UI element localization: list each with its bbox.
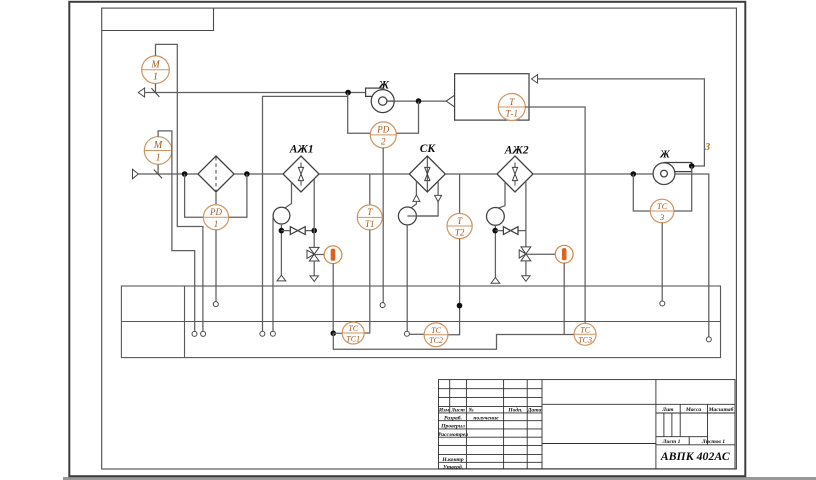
wire AZh2 left drop to pump bbox=[498, 182, 505, 208]
instrument M1 (upper) bbox=[142, 56, 170, 84]
instrument T/T2 bbox=[447, 174, 472, 239]
top-left stamp box bbox=[102, 8, 214, 30]
page shadow strip bbox=[63, 477, 816, 480]
wire AZh2 drain bbox=[494, 225, 496, 277]
svg-text:PD: PD bbox=[209, 207, 222, 217]
svg-text:ТС3: ТС3 bbox=[578, 336, 592, 345]
outlet arrow (return) bbox=[138, 88, 144, 97]
svg-text:М: М bbox=[150, 59, 160, 70]
terminal TC/3 bbox=[660, 301, 665, 306]
three-way valve AZh1 bbox=[307, 247, 319, 261]
node filter left tap bbox=[182, 171, 188, 177]
terminal PD2 bbox=[380, 303, 385, 308]
label AZh2 bbox=[504, 145, 529, 157]
nozzle into heater box bbox=[446, 95, 454, 107]
wire valve1 stubs bbox=[281, 230, 314, 232]
svg-text:АЖ1: АЖ1 bbox=[289, 143, 314, 155]
svg-text:Т2: Т2 bbox=[455, 228, 465, 238]
capillary slash M1 upper bbox=[151, 88, 159, 97]
node on T/T2 wire bbox=[457, 303, 463, 309]
svg-text:№: № bbox=[467, 407, 473, 413]
wire PD2 down bbox=[382, 148, 384, 303]
drawing inner frame bbox=[102, 8, 737, 469]
svg-text:2: 2 bbox=[381, 137, 386, 147]
svg-text:1: 1 bbox=[214, 219, 219, 229]
title block table bbox=[439, 380, 736, 469]
svg-text:Т1: Т1 bbox=[365, 219, 375, 229]
heater box T-1 bbox=[455, 74, 529, 120]
flow arrow down SK bbox=[435, 195, 442, 201]
svg-text:1: 1 bbox=[156, 153, 161, 164]
label AZh1 bbox=[289, 143, 314, 155]
terminal M1 lower bbox=[192, 331, 197, 336]
svg-text:Масса: Масса bbox=[685, 407, 702, 413]
wire TC/3 down bbox=[661, 223, 663, 301]
wire sensor1 down bbox=[332, 264, 334, 334]
terminal bus end bbox=[706, 337, 711, 342]
wire TC1 stub bbox=[333, 332, 342, 334]
wire AZh1 drain bbox=[280, 224, 282, 275]
valve-unit AZh2 diamond bbox=[497, 156, 533, 192]
wire T/T-1 to TC3 collector bbox=[525, 107, 585, 323]
svg-text:ТС1: ТС1 bbox=[346, 334, 360, 343]
wire AZh2 vent bbox=[525, 261, 527, 276]
title block document number bbox=[660, 449, 730, 463]
svg-text:Подп.: Подп. bbox=[507, 406, 522, 413]
thermo sensor TE1 bbox=[324, 246, 342, 264]
wire TC2 stub bbox=[409, 333, 424, 335]
instrument T/T-1 bbox=[498, 94, 525, 121]
wire PD1 down bbox=[215, 230, 217, 302]
title block right section texts bbox=[661, 406, 733, 445]
svg-text:3: 3 bbox=[659, 212, 664, 222]
terminal SK pump bbox=[404, 331, 409, 336]
svg-text:Ж: Ж bbox=[659, 149, 670, 160]
wire M1 lower signal to collector bbox=[158, 131, 195, 332]
wire AZh1 right drop bbox=[313, 179, 315, 248]
instrument PD1 bbox=[203, 205, 228, 230]
svg-text:Утверд.: Утверд. bbox=[443, 463, 463, 470]
filter F1 bbox=[198, 156, 234, 192]
svg-text:ТС: ТС bbox=[431, 326, 441, 335]
node AZh1 valve left bbox=[279, 228, 285, 234]
svg-text:Н.контр: Н.контр bbox=[441, 457, 464, 463]
wire PD2 left tap bbox=[348, 93, 371, 134]
terminal pump1 tap bbox=[270, 331, 275, 336]
svg-text:Разраб.: Разраб. bbox=[444, 415, 462, 422]
drain symbol AZh2 bbox=[491, 277, 500, 283]
wire bus to right corner bbox=[675, 174, 709, 337]
label SK bbox=[420, 143, 437, 155]
title block header texts bbox=[438, 406, 542, 413]
wire SK right branch bbox=[407, 181, 438, 216]
cable tray band bbox=[121, 286, 720, 358]
fan B1 bbox=[366, 88, 395, 113]
svg-text:получение: получение bbox=[473, 416, 499, 422]
svg-text:АЖ2: АЖ2 bbox=[504, 145, 529, 157]
instrument T/T1 bbox=[357, 174, 382, 230]
node TC1 left junction bbox=[331, 331, 337, 337]
wire heater return from right bbox=[538, 79, 705, 166]
pump SK bbox=[398, 207, 416, 225]
wire valve2 stubs bbox=[495, 230, 526, 232]
node fan right tap bbox=[689, 163, 695, 169]
valve-unit AZh1 diamond bbox=[283, 156, 319, 192]
svg-text:Изм: Изм bbox=[438, 407, 449, 413]
svg-text:Рассмотрел: Рассмотрел bbox=[438, 432, 468, 438]
label fan Zh bbox=[378, 80, 390, 92]
wire T/T1 down to TC1 bbox=[364, 230, 370, 333]
wire M1 upper stem bbox=[155, 84, 157, 93]
wire AZh1 left drop to pump bbox=[284, 183, 291, 209]
wire three-way to sensor1 bbox=[314, 254, 324, 256]
wire PD2 right tap bbox=[396, 101, 418, 133]
wire AZh2 right drop bbox=[525, 181, 527, 247]
instrument TC/TC2 bbox=[424, 323, 448, 347]
svg-text:Проверил: Проверил bbox=[440, 424, 465, 430]
node PD2 left tap bbox=[345, 90, 351, 96]
instrument M1 (lower) bbox=[144, 137, 172, 165]
wire AZh1 vent bbox=[313, 261, 315, 276]
wire M1 lower stem bbox=[157, 164, 159, 174]
wire SK pump down bbox=[406, 225, 408, 331]
wire filter to PD1 bbox=[215, 192, 217, 205]
wire PD1 bracket bbox=[185, 174, 247, 217]
svg-text:З: З bbox=[704, 142, 710, 153]
vent symbol AZh1 bbox=[310, 276, 318, 282]
svg-text:Масштаб: Масштаб bbox=[708, 406, 734, 413]
node AZh1 valve right bbox=[311, 228, 317, 234]
instrument PD2 bbox=[370, 122, 396, 148]
instrument TC/TC3 bbox=[574, 323, 596, 345]
inlet arrow (supply) bbox=[133, 169, 139, 179]
svg-text:СК: СК bbox=[420, 143, 437, 155]
svg-text:ТС: ТС bbox=[580, 325, 590, 334]
flow arrow up SK bbox=[413, 195, 420, 202]
valve V1 bbox=[290, 227, 305, 235]
wire main supply bus bbox=[138, 173, 653, 175]
thermo sensor TE2 bbox=[555, 245, 573, 263]
wire pump1 tapping line bbox=[272, 218, 274, 332]
svg-text:ТС: ТС bbox=[348, 324, 358, 333]
valve V2 bbox=[503, 227, 518, 235]
fan B2 bbox=[653, 163, 692, 185]
svg-text:Лист: Лист bbox=[450, 407, 465, 413]
svg-text:М: М bbox=[153, 140, 163, 151]
pump AZh1 bbox=[273, 207, 290, 224]
svg-text:Т-1: Т-1 bbox=[506, 109, 519, 119]
svg-text:1: 1 bbox=[153, 72, 158, 83]
three-way valve AZh2 bbox=[519, 247, 531, 261]
wire M1 upper signal to collector bbox=[156, 44, 203, 331]
terminal M1 upper bbox=[201, 331, 206, 336]
check valve unit SK diamond bbox=[409, 156, 445, 192]
node PD2 right tap bbox=[416, 98, 422, 104]
svg-text:Дата: Дата bbox=[527, 407, 542, 413]
pump AZh2 bbox=[487, 208, 505, 226]
label node Z bbox=[704, 142, 710, 153]
svg-text:Лист 1: Лист 1 bbox=[662, 439, 681, 445]
svg-text:ТС: ТС bbox=[657, 201, 668, 211]
instrument TC/TC1 bbox=[342, 322, 364, 344]
wire TC3 bracket bbox=[633, 166, 691, 211]
node fan left tap bbox=[631, 171, 637, 177]
wire fan discharge bbox=[394, 100, 446, 102]
wire T/T2 down to TC2 bbox=[448, 239, 460, 335]
node AZh2 valve left bbox=[492, 228, 498, 234]
arrow into heater box top bbox=[532, 75, 538, 83]
title block signature texts bbox=[438, 415, 499, 471]
wire return line bbox=[145, 92, 366, 94]
wire three-way to sensor2 bbox=[526, 253, 555, 255]
instrument TC/3 bbox=[650, 199, 674, 223]
wire lower collector polyline bbox=[333, 333, 574, 349]
label fan Zh right bbox=[659, 149, 670, 160]
svg-text:Листов 1: Листов 1 bbox=[701, 439, 725, 445]
svg-text:АВПК 402АС: АВПК 402АС bbox=[660, 449, 730, 463]
svg-text:PD: PD bbox=[376, 125, 389, 135]
svg-text:Лит: Лит bbox=[661, 407, 674, 413]
terminal fan suction tap bbox=[260, 331, 265, 336]
wire fan suction tap bbox=[263, 96, 348, 331]
wire SK pump line inside bbox=[407, 215, 438, 217]
vent symbol AZh2 bbox=[522, 276, 530, 282]
terminal PD1 bbox=[213, 302, 218, 307]
capillary slash M1 lower bbox=[154, 170, 162, 179]
wire SK left branch bbox=[410, 181, 416, 208]
drain symbol AZh1 bbox=[277, 275, 286, 281]
wire sensor2 down to TC3 bbox=[563, 263, 565, 334]
node filter right tap bbox=[244, 171, 250, 177]
svg-text:ТС2: ТС2 bbox=[429, 336, 443, 345]
